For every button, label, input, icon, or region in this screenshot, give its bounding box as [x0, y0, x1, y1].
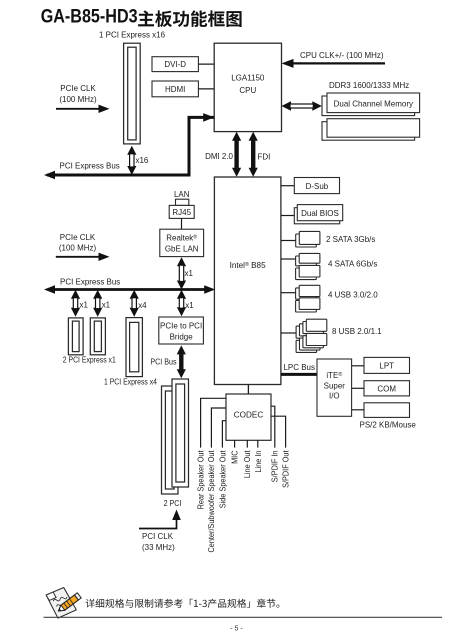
svg-text:CPU: CPU — [239, 86, 256, 95]
wire B85 to USB 2.0 — [281, 332, 296, 334]
PCI CLK wire and arrow — [139, 519, 177, 529]
wire LPC Bus thick — [281, 373, 317, 376]
svg-text:LPC Bus: LPC Bus — [284, 363, 315, 372]
svg-text:DVI-D: DVI-D — [164, 60, 186, 69]
svg-text:2 PCI Express x1: 2 PCI Express x1 — [63, 355, 116, 365]
wire DVI-D to CPU — [198, 63, 214, 65]
LAN port small box — [176, 199, 189, 205]
svg-text:x4: x4 — [138, 301, 147, 310]
svg-text:x16: x16 — [136, 156, 149, 165]
arrow x4 to PCIe x4 slot — [130, 290, 139, 299]
svg-text:Bridge: Bridge — [170, 332, 193, 341]
arrow PCI Bus bridge to PCI slots — [177, 345, 186, 354]
connector stack 4 USB 3.0/2.0 row1 — [296, 288, 317, 299]
PCIe x4 slot — [126, 318, 142, 377]
PCIe x16 slot — [124, 43, 141, 144]
PCIe CLK arrow mid — [56, 256, 100, 258]
wire B85 to D-Sub — [281, 185, 294, 187]
svg-text:1 PCI Express x16: 1 PCI Express x16 — [99, 30, 165, 39]
svg-text:x1: x1 — [102, 300, 111, 309]
title text CJK 主板功能框图 (vector paths) — [138, 10, 242, 27]
wire iTE to PS/2 — [352, 409, 364, 411]
note text CJK (vector paths) — [86, 599, 280, 608]
PS/2 box — [364, 403, 410, 418]
CPU CLK arrow into CPU — [292, 62, 385, 64]
svg-text:DMI 2.0: DMI 2.0 — [205, 152, 233, 161]
wire B85 to SATA 6Gb/s — [281, 258, 296, 260]
memory module box 2 — [322, 122, 415, 141]
svg-text:2 PCI: 2 PCI — [164, 498, 182, 507]
Dual BIOS box (stacked) — [294, 208, 339, 224]
svg-text:4 USB 3.0/2.0: 4 USB 3.0/2.0 — [328, 290, 378, 299]
connector stack 4 SATA 6Gb/s row1 — [296, 256, 317, 266]
wire codec Side Speaker Out — [222, 421, 226, 448]
PCIe CLK arrow to x16 slot — [56, 108, 100, 110]
svg-text:x1: x1 — [185, 269, 194, 278]
wire B85 to Dual BIOS — [281, 215, 294, 217]
wire codec Rear Speaker Out — [201, 398, 226, 447]
CPU box LGA1150 — [214, 43, 281, 131]
svg-text:4 SATA 6Gb/s: 4 SATA 6Gb/s — [328, 259, 377, 268]
arrow x1 to PCIe slot 1 — [71, 290, 80, 299]
svg-text:Dual BIOS: Dual BIOS — [301, 209, 339, 218]
wire PCI Express Bus (lower) double arrow — [52, 288, 208, 291]
wire codec S/PDIF In — [271, 406, 275, 447]
PCI slot front — [172, 379, 189, 487]
COM box — [364, 381, 410, 396]
PCIe x1 slot 1 — [68, 318, 83, 355]
svg-text:PS/2 KB/Mouse: PS/2 KB/Mouse — [360, 420, 417, 429]
footer rule — [44, 616, 443, 618]
connector cascade 8 USB 2.0/1.1 row2 — [296, 333, 327, 352]
svg-text:MIC: MIC — [230, 450, 239, 464]
svg-text:Dual Channel Memory: Dual Channel Memory — [334, 99, 414, 108]
D-Sub box — [294, 178, 339, 194]
CODEC box — [226, 394, 271, 440]
svg-text:PCIe CLK: PCIe CLK — [60, 233, 96, 242]
svg-text:Super: Super — [324, 381, 346, 390]
note icon paper with pencil — [46, 586, 82, 619]
arrow x1 to PCIe slot 2 — [93, 290, 102, 299]
svg-text:PCI Express Bus: PCI Express Bus — [60, 277, 120, 286]
svg-text:x1: x1 — [185, 301, 194, 310]
svg-text:S/PDIF Out: S/PDIF Out — [281, 450, 290, 488]
svg-text:Side Speaker Out: Side Speaker Out — [218, 450, 227, 509]
svg-text:CODEC: CODEC — [234, 409, 263, 419]
wire B85 to SATA 3Gb/s — [281, 240, 296, 242]
chipset box Intel B85 — [214, 177, 281, 385]
svg-text:Center/Subwoofer Speaker Out: Center/Subwoofer Speaker Out — [207, 450, 216, 553]
arrow DMI 2.0 CPU-B85 — [232, 132, 241, 141]
PCIe x1 slot 2 — [90, 318, 105, 355]
PCIe to PCI Bridge box — [159, 317, 204, 344]
wire codec Line In — [257, 440, 259, 447]
wire HDMI to CPU — [198, 88, 214, 90]
svg-text:LAN: LAN — [174, 190, 190, 199]
svg-text:PCI Bus: PCI Bus — [150, 357, 176, 367]
svg-text:PCIe CLK: PCIe CLK — [60, 84, 96, 93]
svg-text:x1: x1 — [80, 300, 89, 309]
svg-text:(33 MHz): (33 MHz) — [142, 543, 175, 552]
svg-text:COM: COM — [377, 384, 396, 393]
connector stack 2 SATA 3Gb/s — [296, 234, 317, 247]
arrow FDI CPU-B85 — [249, 132, 258, 141]
svg-text:FDI: FDI — [258, 152, 271, 161]
svg-text:RJ45: RJ45 — [172, 208, 191, 217]
PCI slot back — [162, 386, 179, 494]
super io box iTE — [317, 359, 352, 416]
svg-text:CPU CLK+/- (100 MHz): CPU CLK+/- (100 MHz) — [300, 51, 384, 60]
svg-text:HDMI: HDMI — [165, 85, 185, 94]
wire B85 to USB 3.0 — [281, 292, 296, 294]
svg-text:LPT: LPT — [379, 361, 394, 370]
LPT box — [364, 357, 410, 373]
wire codec Center/Subwoofer Speaker Out — [211, 408, 226, 448]
arrow x1 to bridge — [177, 290, 186, 299]
wire codec MIC — [234, 440, 236, 447]
svg-text:(100 MHz): (100 MHz) — [59, 243, 96, 252]
RJ45 box — [169, 205, 194, 218]
svg-text:Rear Speaker Out: Rear Speaker Out — [196, 450, 205, 510]
svg-text:- 5 -: - 5 - — [230, 623, 243, 632]
arrow CPU to memory — [282, 101, 292, 111]
arrow x1 Realtek to bus — [177, 257, 186, 266]
svg-text:LGA1150: LGA1150 — [231, 73, 265, 82]
connector stack 4 USB 3.0/2.0 row2 — [296, 300, 317, 312]
svg-text:GbE LAN: GbE LAN — [165, 244, 199, 253]
svg-text:DDR3 1600/1333 MHz: DDR3 1600/1333 MHz — [329, 81, 409, 90]
wire iTE to COM — [352, 387, 364, 389]
wire codec S/PDIF Out — [271, 416, 286, 447]
svg-text:GA-B85-HD3: GA-B85-HD3 — [41, 5, 138, 27]
svg-text:Realtek®: Realtek® — [166, 233, 197, 242]
arrow x16 between slot and bus — [127, 146, 136, 155]
wire PCI Express Bus (top, CPU to x16) — [47, 117, 214, 175]
svg-text:D-Sub: D-Sub — [306, 182, 329, 191]
HDMI box — [152, 81, 198, 97]
wire iTE to LPT — [352, 365, 364, 367]
svg-text:Line Out: Line Out — [243, 450, 252, 479]
svg-text:PCI CLK: PCI CLK — [142, 532, 174, 541]
svg-text:1 PCI Express x4: 1 PCI Express x4 — [104, 377, 157, 387]
svg-text:2 SATA 3Gb/s: 2 SATA 3Gb/s — [326, 235, 375, 244]
connector cascade 8 USB 2.0/1.1 row1 — [296, 319, 327, 338]
svg-text:PCI Express Bus: PCI Express Bus — [60, 161, 120, 170]
wire codec Line Out — [246, 440, 248, 447]
connector stack 4 SATA 6Gb/s row2 — [296, 268, 317, 280]
svg-text:PCIe to PCI: PCIe to PCI — [160, 321, 202, 330]
memory module box 1 Dual Channel Memory — [322, 96, 415, 116]
svg-text:8 USB 2.0/1.1: 8 USB 2.0/1.1 — [332, 327, 382, 336]
wire RJ45 to Realtek — [181, 218, 183, 229]
wire B85 to CODEC — [247, 385, 249, 395]
DVI-D box — [152, 57, 198, 72]
svg-text:I/O: I/O — [329, 392, 340, 401]
svg-text:(100 MHz): (100 MHz) — [59, 95, 96, 104]
Realtek GbE LAN box — [160, 229, 204, 256]
svg-text:Line In: Line In — [254, 451, 263, 473]
svg-text:S/PDIF In: S/PDIF In — [270, 451, 279, 483]
